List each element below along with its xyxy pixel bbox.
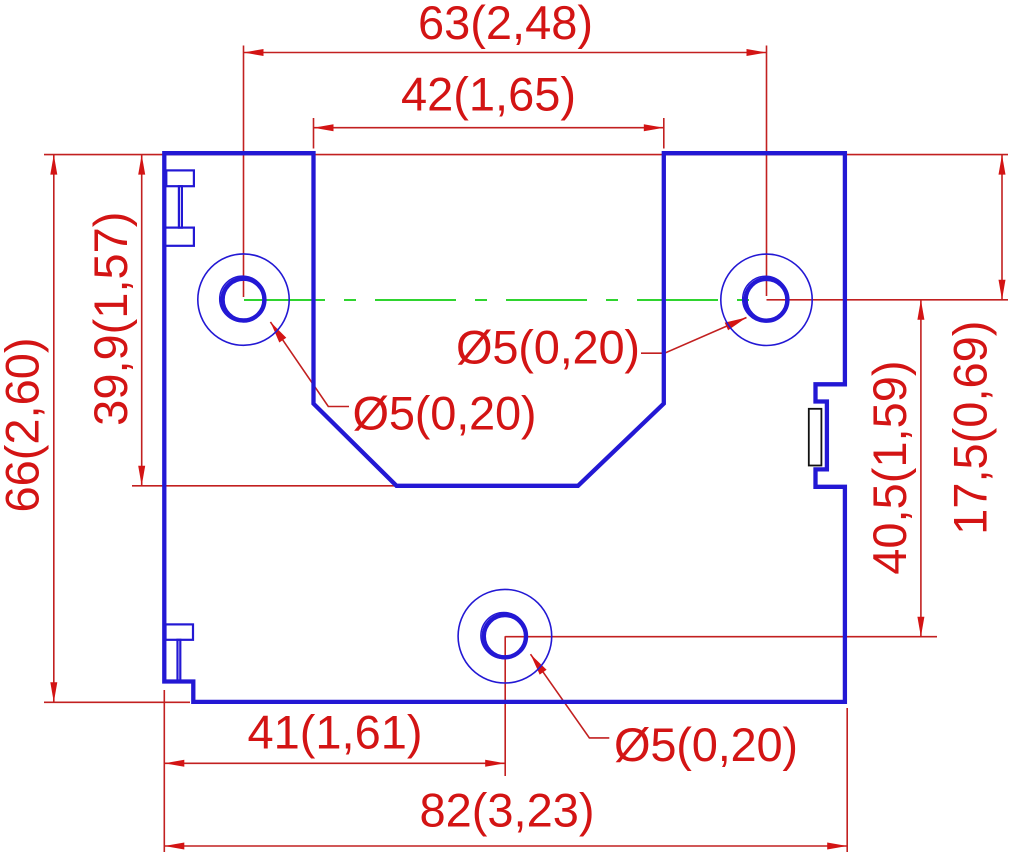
extension line: 42 right	[663, 118, 665, 149]
clip bottom-left: flange	[166, 624, 194, 639]
arrow 40,5 top	[917, 300, 924, 320]
hole H2 bore (thick)	[746, 279, 788, 321]
svg-text:63(2,48): 63(2,48)	[418, 0, 593, 49]
extension line: 63 left (to hole H1 center)	[243, 46, 245, 298]
dimension line 82	[164, 845, 847, 847]
extension line: 82 left	[163, 690, 165, 852]
svg-text:39,9(1,57): 39,9(1,57)	[84, 212, 137, 426]
dimension line 17,5 vertical	[1001, 155, 1003, 300]
arrow 63 right	[747, 49, 767, 56]
hole H1 bore (thin offset)	[220, 276, 266, 322]
hole H3 bore (thin offset)	[481, 613, 527, 659]
svg-text:Ø5(0,20): Ø5(0,20)	[456, 321, 640, 374]
arrow 39,9 bottom	[138, 466, 145, 486]
extension line: 82 right	[846, 708, 848, 852]
extension line: bottom edge left (for 66)	[44, 701, 190, 703]
clip bottom-left: web	[178, 640, 181, 682]
leader arrow H3	[531, 654, 547, 674]
arrow 39,9 top	[138, 155, 145, 175]
dimension line 40,5 vertical	[920, 300, 922, 637]
leader arrow H1	[270, 322, 286, 343]
svg-text:40,5(1,59): 40,5(1,59)	[863, 360, 916, 574]
clip top-left: lower flange	[165, 228, 194, 246]
hole H2 boss	[721, 254, 812, 345]
hole H2 bore (thin offset)	[743, 276, 789, 322]
arrow 82 right	[827, 843, 847, 850]
hole H3 bore (thick)	[484, 615, 526, 657]
svg-text:17,5(0,69): 17,5(0,69)	[943, 321, 996, 535]
extension line: top edge (overall)	[44, 154, 1008, 156]
arrow 40,5 bottom	[917, 617, 924, 637]
leader: hole H3 label	[531, 654, 610, 738]
svg-text:66(2,60): 66(2,60)	[0, 337, 49, 512]
extension line: notch bottom (for 39,9)	[132, 485, 396, 487]
arrow 42 left	[314, 124, 334, 131]
svg-text:Ø5(0,20): Ø5(0,20)	[614, 718, 798, 771]
svg-text:42(1,65): 42(1,65)	[401, 68, 576, 121]
dimension line 41	[164, 762, 505, 764]
dimension line 42	[314, 127, 664, 129]
svg-text:Ø5(0,20): Ø5(0,20)	[353, 387, 537, 440]
extension line: H2 center to right	[767, 299, 1009, 301]
centerline through H1 and H2	[244, 299, 767, 301]
dimension line 39,9 vertical	[141, 155, 143, 486]
arrow 66 top	[50, 155, 57, 175]
extension line: 63 right (to hole H2 center)	[766, 46, 768, 297]
part outline	[164, 153, 845, 702]
arrow 41 right	[485, 760, 505, 767]
clip top-left: web	[179, 186, 182, 227]
arrow 17,5 bottom	[999, 280, 1006, 300]
connector block (black)	[809, 409, 822, 466]
leader: hole H1 label	[270, 322, 349, 407]
svg-text:41(1,61): 41(1,61)	[247, 706, 422, 759]
arrow 42 right	[644, 124, 664, 131]
extension line: H3 center down	[504, 636, 506, 776]
arrow 66 bottom	[50, 682, 57, 702]
extension line: 42 left	[313, 118, 315, 149]
clip top-left: flange	[166, 170, 194, 186]
leader: hole H2 label	[641, 318, 747, 354]
dimension line 63	[244, 52, 767, 54]
arrow 82 left	[164, 843, 184, 850]
svg-text:82(3,23): 82(3,23)	[419, 784, 594, 837]
hole H3 boss	[458, 589, 552, 683]
arrow 17,5 top	[999, 155, 1006, 175]
hole H1 boss	[198, 254, 289, 345]
arrow 41 left	[164, 760, 184, 767]
dimension line 66 vertical	[53, 155, 55, 703]
extension line: H3 center to right	[505, 636, 937, 638]
arrow 63 left	[244, 49, 264, 56]
hole H1 bore (thick)	[223, 279, 265, 321]
leader arrow H2	[725, 318, 747, 331]
